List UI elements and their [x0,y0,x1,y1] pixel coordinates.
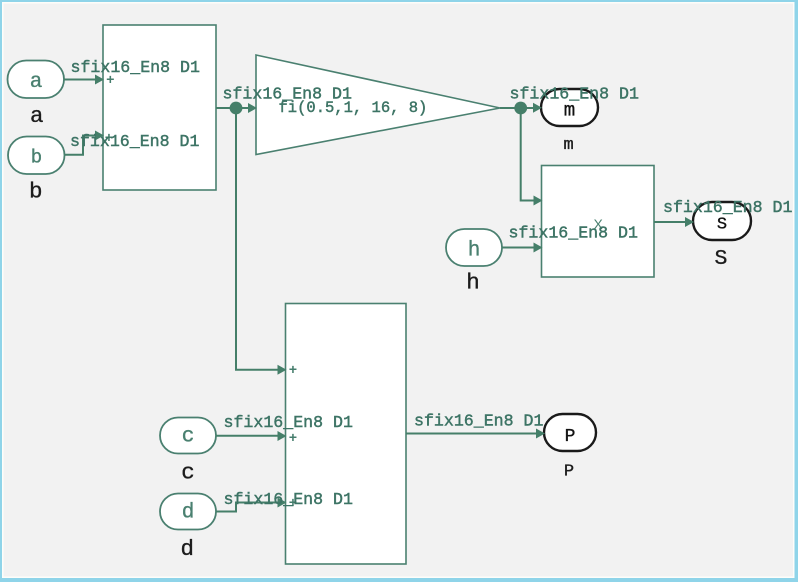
svg-text:b: b [29,179,43,205]
svg-text:a: a [30,103,44,129]
wire b to Add1 [65,136,97,155]
svg-text:m: m [563,136,573,155]
svg-text:P: P [564,462,574,481]
arrowhead branch to product [534,196,543,206]
product block [542,166,655,278]
sum block Add1 [103,25,216,190]
arrowhead c to Add2 [278,431,287,441]
outport S [693,202,751,240]
wire c to Add2 input 2 [216,435,279,437]
svg-text:b: b [31,146,42,168]
svg-text:c: c [181,460,195,486]
svg-text:h: h [468,240,481,263]
svg-text:h: h [466,270,480,296]
arrowhead d to Add2 [278,498,287,508]
wire d to Add2 input 3 [216,503,279,512]
arrowhead branch to Add2 [278,365,287,375]
wire Add1 output branch to Add2 input 1 [236,108,279,370]
wire product to S [654,221,686,223]
inport h [446,229,502,266]
svg-text:sfix16_En8 D1: sfix16_En8 D1 [71,58,200,77]
outport P [544,414,596,451]
svg-text:P: P [565,427,576,447]
arrowhead h to product [534,243,543,253]
inport b [8,137,65,175]
wire gain to m [500,107,534,109]
inport c [160,418,216,454]
wire gain output branch to product input 1 [521,108,535,201]
svg-text:S: S [717,216,727,235]
svg-text:a: a [30,71,43,94]
junction node Add1 output [230,102,243,115]
arrowhead product to S [685,217,694,227]
wire Add1 to gain [216,107,249,109]
svg-text:sfix16_En8 D1: sfix16_En8 D1 [223,85,352,104]
svg-text:d: d [181,536,195,562]
svg-text:sfix16_En8 D1: sfix16_En8 D1 [224,490,353,509]
wire Add2 to P [406,433,537,435]
svg-text:+: + [289,363,297,379]
wire h to product input 2 [502,247,535,249]
arrowhead gain to m [533,103,542,113]
junction node gain output [514,102,527,115]
arrowhead a to Add1 [95,75,104,85]
svg-text:sfix16_En8 D1: sfix16_En8 D1 [70,132,199,151]
sum block Add2 [286,304,407,565]
svg-text:d: d [182,501,195,524]
outport m [541,89,598,126]
inport d [160,494,216,530]
svg-text:c: c [182,425,195,448]
arrowhead Add2 to P [536,429,545,439]
wire a to Add1 [64,79,96,81]
svg-text:sfix16_En8 D1: sfix16_En8 D1 [510,85,639,104]
svg-text:sfix16_En8 D1: sfix16_En8 D1 [414,412,543,431]
svg-text:sfix16_En8 D1: sfix16_En8 D1 [663,198,792,217]
gain block fi(0.5,1, 16, 8) [256,55,500,155]
arrowhead b to Add1 [95,131,104,141]
svg-text:+: + [289,431,297,447]
inport a [8,61,65,99]
svg-text:sfix16_En8 D1: sfix16_En8 D1 [224,413,353,432]
svg-text:S: S [715,247,728,271]
arrowhead Add1 to gain [248,103,257,113]
svg-text:sfix16_En8 D1: sfix16_En8 D1 [509,224,638,243]
